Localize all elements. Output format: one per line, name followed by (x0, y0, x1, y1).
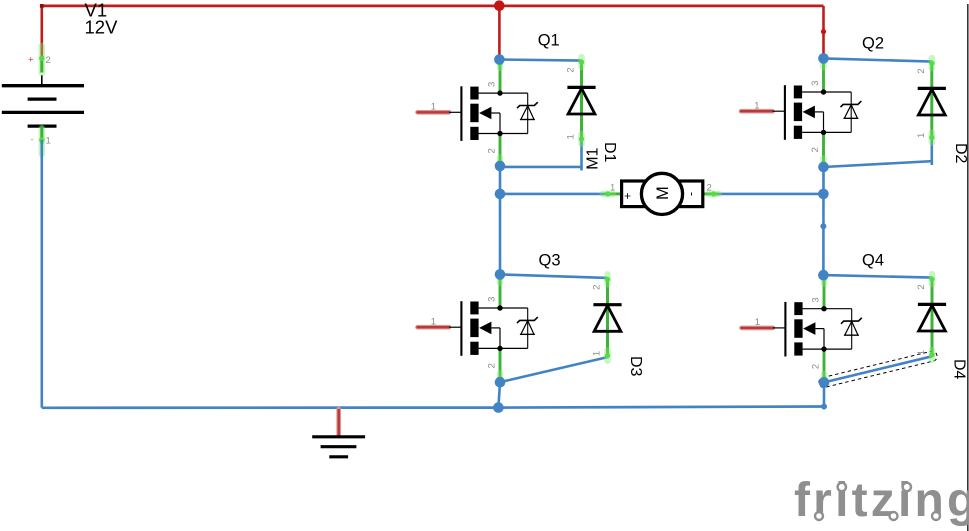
wire Q1 junction to D1 cathode (499, 60, 581, 61)
svg-text:1: 1 (566, 134, 577, 139)
node top rail junction (494, 0, 505, 11)
wire Q2 source down motor row to Q4 (822, 167, 825, 275)
node Q4 rail end bendpoint (821, 404, 827, 410)
node Q1 source junction (495, 161, 506, 172)
svg-text:Q1: Q1 (538, 32, 560, 50)
svg-text:+: + (621, 192, 635, 199)
svg-text:M1: M1 (585, 147, 602, 169)
svg-text:M: M (654, 186, 672, 200)
svg-text:Q3: Q3 (539, 251, 561, 269)
svg-text:3: 3 (487, 297, 498, 302)
wire Q4 source to bottom rail (823, 382, 826, 406)
svg-text:D4: D4 (951, 359, 968, 380)
selection outline dashed (818, 350, 938, 388)
svg-text:2: 2 (592, 285, 603, 290)
svg-text:2: 2 (566, 67, 577, 72)
svg-text:2: 2 (46, 55, 51, 66)
wire Q1 source to motor row (499, 166, 502, 194)
svg-text:2: 2 (487, 148, 498, 153)
svg-text:1: 1 (592, 351, 603, 356)
transistor Q1 (418, 58, 538, 168)
node Q2 drain junction (818, 53, 829, 64)
node bottom rail junction (493, 402, 504, 413)
wire rail to Q1 drain (498, 6, 501, 60)
wire bottom ground rail (42, 407, 824, 408)
transistor Q4 (742, 274, 862, 384)
wire Q4 junction to D4 cathode (823, 275, 932, 278)
node Q2 red bendpoint (821, 29, 826, 34)
wire Q3 junction to D3 cathode (500, 274, 608, 278)
node Q2-Q4 bendpoint (820, 223, 826, 229)
diode D2 (916, 58, 946, 142)
svg-text:1: 1 (755, 317, 760, 328)
wire motor right lead (713, 193, 823, 196)
svg-text:3: 3 (487, 82, 498, 87)
svg-text:1: 1 (754, 100, 759, 111)
node motor right junction (818, 189, 829, 200)
svg-text:D1: D1 (601, 142, 618, 163)
wire Q2 junction to D2 cathode (824, 58, 932, 61)
node Q3 drain junction (495, 269, 506, 280)
wire battery positive vertical (40, 6, 43, 57)
svg-text:Q4: Q4 (862, 251, 884, 269)
wire top power rail (42, 5, 824, 8)
svg-text:1: 1 (916, 133, 927, 138)
wire rail to Q2 drain (822, 6, 825, 59)
svg-text:3: 3 (810, 81, 821, 86)
svg-text:D2: D2 (952, 143, 969, 164)
node Q2 source junction (818, 162, 829, 173)
svg-text:2: 2 (810, 147, 821, 152)
wire motor row to Q3 drain (499, 194, 502, 275)
node Q1 drain junction (494, 54, 505, 65)
svg-text:2: 2 (811, 364, 822, 369)
svg-text:2: 2 (916, 284, 927, 289)
svg-text:3: 3 (811, 297, 822, 302)
svg-text:+: + (28, 55, 34, 66)
svg-text:1: 1 (431, 102, 436, 113)
wire D3 anode to Q3 source diagonal (500, 357, 608, 382)
diode D1 (566, 57, 596, 144)
wire D4 anode to Q4 source diagonal (selected) (824, 356, 932, 382)
node Q4 source junction (819, 377, 830, 388)
wire motor left lead (500, 193, 609, 196)
svg-text:1: 1 (610, 182, 615, 193)
wire battery negative down (40, 140, 43, 408)
transistor Q3 (418, 273, 538, 384)
battery V1 (2, 46, 84, 154)
ground symbol (312, 409, 365, 457)
node motor left junction (495, 189, 506, 200)
motor M1 (603, 173, 719, 214)
svg-text:-: - (31, 135, 34, 146)
svg-text:1: 1 (431, 316, 436, 327)
frame right border (967, 4, 969, 531)
svg-text:-: - (684, 192, 698, 196)
diode D4 (916, 274, 946, 360)
svg-text:1: 1 (916, 350, 927, 355)
transistor Q2 (741, 57, 861, 169)
svg-text:2: 2 (487, 363, 498, 368)
wire Q3 source to bottom rail (498, 382, 500, 407)
wire D1 anode to Q1 source (500, 141, 582, 167)
node top-left corner bendpoint (40, 4, 44, 8)
svg-text:1: 1 (46, 136, 51, 147)
diode D3 (592, 274, 622, 360)
wire D2 anode to Q2 source (824, 139, 932, 167)
node Q4 drain junction (818, 270, 829, 281)
node Q3 source junction (495, 377, 506, 388)
svg-text:2: 2 (916, 68, 927, 73)
svg-text:2: 2 (707, 182, 712, 193)
svg-text:Q2: Q2 (862, 35, 884, 53)
svg-text:D3: D3 (627, 356, 644, 377)
